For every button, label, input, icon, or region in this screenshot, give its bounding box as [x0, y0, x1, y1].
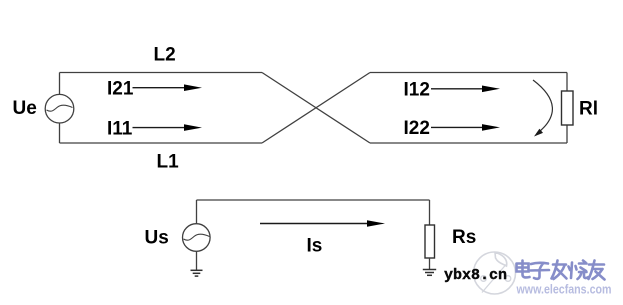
wire: right vertical below Rl	[566, 125, 568, 143]
wire: crossover diagonal (bottom-left to top-right)	[262, 73, 370, 144]
svg-text:Is: Is	[307, 236, 323, 257]
svg-text:L1: L1	[157, 152, 180, 173]
友	[589, 261, 605, 280]
svg-text:L2: L2	[154, 45, 176, 66]
wire: Us top vertical	[196, 200, 198, 224]
svg-text:Us: Us	[145, 228, 169, 249]
svg-text:Rl: Rl	[579, 99, 598, 120]
current arrow I12	[431, 86, 500, 93]
wire: right vertical above Rl	[566, 73, 568, 92]
current arrow I11	[133, 124, 203, 131]
resistor Rs	[425, 225, 435, 258]
resistor Rl	[562, 91, 574, 125]
svg-text:Ue: Ue	[13, 98, 37, 119]
watermark text 电子发烧友 (drawn strokes)	[517, 261, 605, 280]
voltage source Ue (circle with sine)	[45, 94, 74, 123]
current arrow Is	[260, 220, 385, 227]
子	[531, 263, 550, 279]
发	[552, 261, 567, 280]
curved current arrow near Rl	[533, 80, 552, 137]
wire: left vertical below source Ue	[59, 123, 61, 143]
wire: L1 left horizontal segment	[60, 142, 263, 144]
svg-text:I22: I22	[404, 118, 430, 139]
svg-text:I11: I11	[107, 119, 133, 140]
svg-text:I12: I12	[404, 80, 430, 101]
wire: bottom right horizontal segment	[370, 142, 567, 144]
wire: Us bottom vertical to ground	[196, 251, 198, 270]
wire: lower circuit top horizontal	[197, 199, 430, 201]
电	[517, 261, 530, 278]
ground (below Rs)	[423, 270, 436, 276]
wire: crossover diagonal (top-left to bottom-right)	[262, 73, 370, 144]
wire: left vertical above source Ue	[59, 73, 61, 95]
wire: Rs bottom vertical to ground	[429, 258, 431, 270]
svg-text:I21: I21	[107, 79, 134, 100]
voltage source Us (circle with sine)	[183, 224, 211, 252]
wire: L2 left horizontal segment	[60, 72, 263, 74]
wire: vertical down to Rs	[429, 200, 431, 225]
svg-text:ybx8.cn: ybx8.cn	[444, 267, 507, 284]
svg-text:www.elecfans.com: www.elecfans.com	[516, 282, 612, 297]
wire: top right horizontal segment	[370, 72, 567, 74]
烧	[569, 261, 589, 280]
current arrow I22	[431, 124, 500, 131]
ground (below Us)	[191, 270, 203, 276]
watermark logo circle (elecfans stamp)	[474, 252, 516, 294]
svg-text:Rs: Rs	[452, 227, 476, 248]
current arrow I21	[133, 84, 203, 91]
